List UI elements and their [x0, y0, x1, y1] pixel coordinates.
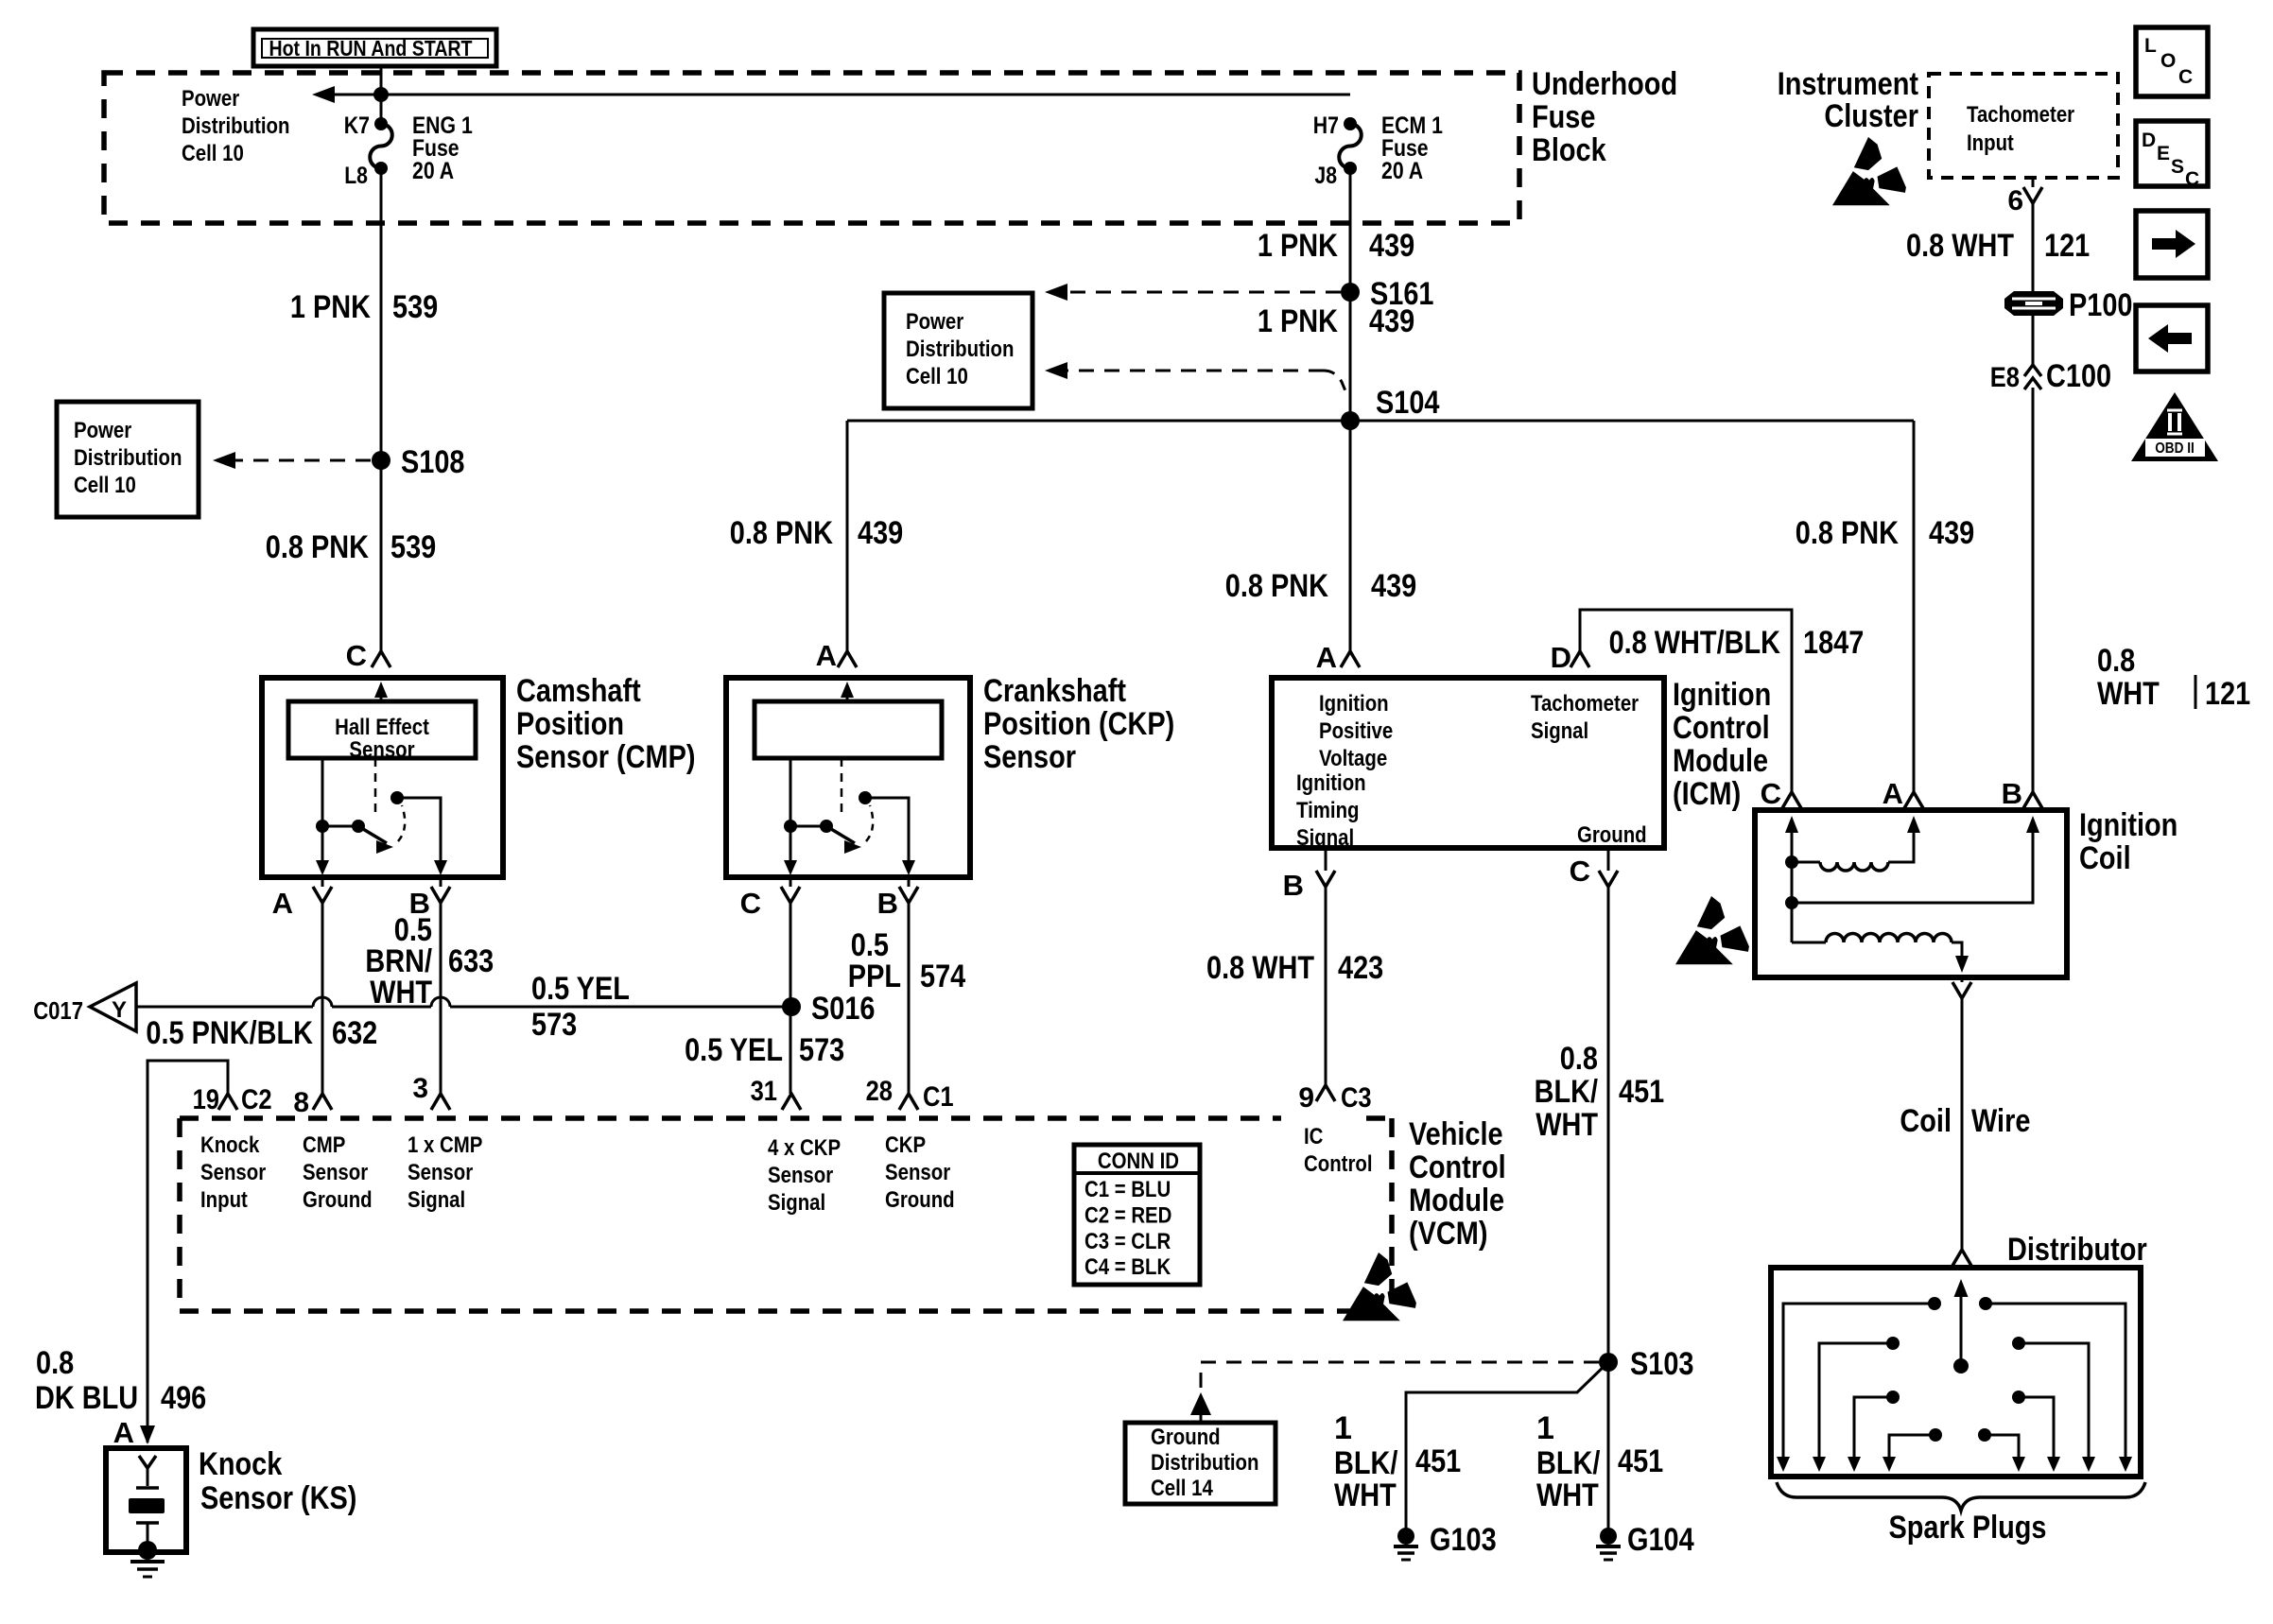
wire: 0.8 PNK 439 down to ignition coil pin A: [1913, 421, 1916, 792]
svg-text:0.8 WHT: 0.8 WHT: [1906, 228, 2014, 264]
svg-text:1 PNK: 1 PNK: [290, 289, 371, 325]
dashed arrow S108 to power distribution: [234, 459, 371, 462]
connector at ICM pin D: [1570, 651, 1589, 667]
svg-text:Control: Control: [1673, 710, 1770, 746]
svg-text:IC: IC: [1304, 1124, 1323, 1149]
svg-text:Signal: Signal: [768, 1190, 825, 1216]
svg-text:Module: Module: [1673, 743, 1768, 779]
svg-text:451: 451: [1415, 1443, 1461, 1479]
wire: 0.5 YEL 573 bus: [136, 1006, 313, 1009]
connector at tach pin 6: [2023, 187, 2042, 203]
svg-text:Module: Module: [1409, 1183, 1504, 1218]
svg-text:J8: J8: [1314, 163, 1337, 189]
svg-text:1847: 1847: [1803, 625, 1864, 661]
svg-text:Underhood: Underhood: [1532, 66, 1677, 102]
svg-text:3: 3: [412, 1073, 428, 1104]
svg-text:Signal: Signal: [408, 1187, 465, 1213]
CKP switch mechanism: [784, 820, 797, 833]
splice S103: [1599, 1353, 1618, 1372]
svg-text:C100: C100: [2046, 358, 2111, 394]
svg-text:(ICM): (ICM): [1673, 776, 1741, 812]
svg-text:A: A: [113, 1416, 134, 1449]
svg-text:Hall Effect: Hall Effect: [335, 715, 429, 740]
svg-text:S103: S103: [1630, 1346, 1694, 1382]
svg-text:121: 121: [2044, 228, 2090, 264]
svg-text:Input: Input: [200, 1187, 248, 1213]
svg-text:S104: S104: [1376, 385, 1440, 421]
svg-text:Input: Input: [1967, 130, 2014, 156]
connector at CKP pin A: [838, 651, 857, 667]
svg-text:Sensor (KS): Sensor (KS): [200, 1480, 356, 1516]
svg-text:1 PNK: 1 PNK: [1258, 228, 1338, 264]
svg-text:A: A: [1883, 777, 1903, 810]
svg-text:4 x CKP: 4 x CKP: [768, 1135, 841, 1161]
legend box DESC: [2136, 121, 2208, 186]
svg-text:Y: Y: [112, 997, 127, 1023]
connector C100 (E8): [2024, 365, 2041, 376]
distributor box: [1771, 1268, 2141, 1477]
svg-text:Distribution: Distribution: [182, 113, 290, 139]
distributor cap contact 8: [1979, 1297, 1992, 1310]
connector VCM pin 8: [313, 1094, 332, 1110]
dashed line S103 to ground distribution: [1201, 1362, 1599, 1391]
junction node on feed: [373, 87, 389, 102]
wire: S104 horizontal distribution: [847, 420, 1914, 423]
svg-text:WHT: WHT: [370, 975, 432, 1011]
svg-text:Sensor: Sensor: [885, 1160, 950, 1185]
svg-text:S: S: [2171, 156, 2184, 178]
OBD II triangle symbol: [2131, 392, 2218, 461]
svg-text:C017: C017: [33, 996, 83, 1025]
svg-text:574: 574: [920, 959, 965, 994]
svg-text:B: B: [877, 887, 898, 920]
svg-text:C: C: [2185, 168, 2199, 190]
svg-text:WHT: WHT: [1334, 1477, 1397, 1513]
svg-text:423: 423: [1338, 950, 1383, 986]
wire: PPL 574 CKP B to VCM pin 28: [908, 903, 911, 1094]
svg-text:P100: P100: [2069, 287, 2133, 323]
svg-text:Signal: Signal: [1296, 825, 1354, 851]
connector at CMP pin B: [431, 887, 450, 903]
svg-text:Crankshaft: Crankshaft: [983, 673, 1126, 709]
splice S161: [1341, 283, 1360, 302]
connector VCM pin 31: [782, 1094, 801, 1110]
coil pin C internal lead: [1791, 822, 1794, 942]
wire: YEL 573 CKP C to S016 to VCM pin 31: [789, 903, 792, 1094]
svg-text:C: C: [346, 639, 367, 672]
CMP right wire to pin B: [397, 798, 441, 870]
connector at CKP pin B: [899, 887, 918, 903]
svg-text:DK BLU: DK BLU: [35, 1380, 138, 1416]
svg-text:Position (CKP): Position (CKP): [983, 706, 1174, 742]
distributor cap contact 6: [2012, 1391, 2025, 1404]
splice S104: [1341, 411, 1360, 430]
svg-text:0.8: 0.8: [2097, 643, 2135, 679]
knock sensor element: [147, 1468, 149, 1486]
svg-text:BLK/: BLK/: [1334, 1445, 1398, 1481]
svg-text:Coil: Coil: [1900, 1103, 1952, 1139]
svg-text:PPL: PPL: [848, 959, 901, 994]
ground G103: [1397, 1528, 1414, 1545]
svg-text:539: 539: [390, 529, 436, 565]
svg-text:Power: Power: [74, 418, 131, 443]
svg-text:0.8 WHT: 0.8 WHT: [1206, 950, 1314, 986]
svg-text:K7: K7: [344, 112, 370, 139]
svg-text:20 A: 20 A: [1381, 158, 1423, 184]
svg-text:0.8 PNK: 0.8 PNK: [1796, 515, 1900, 551]
svg-text:Cell 14: Cell 14: [1151, 1476, 1213, 1501]
svg-text:S108: S108: [401, 444, 465, 480]
camshaft position sensor box: [262, 678, 503, 877]
svg-text:Ignition: Ignition: [2079, 807, 2178, 843]
svg-text:Tachometer: Tachometer: [1531, 691, 1639, 717]
svg-text:0.8: 0.8: [1560, 1041, 1598, 1077]
svg-text:0.8 WHT/BLK: 0.8 WHT/BLK: [1609, 625, 1781, 661]
svg-text:Wire: Wire: [1971, 1103, 2030, 1139]
svg-text:0.8: 0.8: [36, 1345, 74, 1381]
svg-text:Power: Power: [906, 309, 963, 335]
svg-text:Camshaft: Camshaft: [516, 673, 641, 709]
svg-text:C: C: [1761, 777, 1781, 810]
svg-text:31: 31: [751, 1076, 777, 1107]
dashed arrow S104 to power distribution: [1067, 370, 1324, 372]
svg-text:1 PNK: 1 PNK: [1258, 303, 1338, 339]
svg-text:CKP: CKP: [885, 1132, 926, 1158]
distributor cap contact 1: [1928, 1297, 1941, 1310]
svg-text:C3 = CLR: C3 = CLR: [1084, 1229, 1171, 1254]
svg-text:C1 = BLU: C1 = BLU: [1084, 1177, 1171, 1202]
svg-text:A: A: [1316, 641, 1337, 674]
svg-text:A: A: [272, 887, 293, 920]
connector below coil: [1952, 982, 1971, 998]
svg-text:Timing: Timing: [1296, 798, 1360, 823]
svg-text:1: 1: [1334, 1410, 1352, 1446]
wire: 0.8 BLK/WHT 451 ICM C to S103: [1607, 887, 1610, 1362]
ESD symbol (VCM): [1343, 1253, 1416, 1321]
svg-text:0.5 YEL: 0.5 YEL: [685, 1032, 783, 1068]
svg-text:Fuse: Fuse: [1532, 99, 1595, 135]
svg-text:D: D: [1551, 641, 1571, 674]
svg-text:S016: S016: [811, 991, 876, 1027]
svg-text:OBD II: OBD II: [2155, 441, 2195, 457]
svg-text:L: L: [2144, 35, 2157, 57]
svg-text:1 x CMP: 1 x CMP: [408, 1132, 482, 1158]
svg-text:C1: C1: [923, 1081, 954, 1113]
svg-text:E8: E8: [1990, 362, 2020, 393]
connector at ICM pin B: [1316, 871, 1335, 887]
wire: 0.8 WHT 121 tach to coil B: [2032, 203, 2035, 291]
svg-text:Tachometer: Tachometer: [1967, 102, 2074, 128]
svg-text:H7: H7: [1313, 112, 1339, 139]
svg-text:Hot In RUN And START: Hot In RUN And START: [269, 36, 473, 60]
svg-text:Power: Power: [182, 86, 239, 112]
ground distribution cell 14 box: [1125, 1423, 1275, 1504]
distributor cap contact 4: [1929, 1428, 1942, 1442]
svg-text:Ignition: Ignition: [1319, 691, 1389, 717]
svg-text:Sensor: Sensor: [983, 739, 1076, 775]
connector at coil pin C: [1782, 792, 1801, 808]
svg-text:Ground: Ground: [885, 1187, 955, 1213]
svg-text:Sensor: Sensor: [768, 1163, 833, 1188]
svg-text:G104: G104: [1627, 1522, 1694, 1558]
svg-text:439: 439: [858, 515, 903, 551]
power distribution cell 10 box (left): [57, 402, 199, 517]
ignition control module box: [1272, 678, 1664, 848]
svg-text:Sensor: Sensor: [303, 1160, 368, 1185]
svg-text:8: 8: [293, 1087, 309, 1118]
connector VCM pin 9: [1316, 1085, 1335, 1101]
svg-text:O: O: [2160, 50, 2176, 72]
legend box left-arrow: [2136, 305, 2208, 371]
splice S108: [372, 451, 390, 470]
svg-text:0.8 PNK: 0.8 PNK: [730, 515, 834, 551]
CKP left wire to pin C: [789, 758, 792, 870]
legend box LOC: [2136, 27, 2208, 96]
svg-text:451: 451: [1619, 1074, 1664, 1110]
connector at distributor input: [1952, 1250, 1971, 1266]
svg-text:Position: Position: [516, 706, 624, 742]
wire: hot feed into fuse block: [380, 66, 383, 124]
svg-text:G103: G103: [1430, 1522, 1497, 1558]
pass-through grommet P100: [2004, 291, 2063, 316]
svg-text:0.8 PNK: 0.8 PNK: [266, 529, 370, 565]
svg-text:Ignition: Ignition: [1673, 677, 1771, 713]
wire: 0.8 WHT 423 ICM B to VCM pin 9: [1325, 887, 1327, 1085]
svg-text:Ignition: Ignition: [1296, 770, 1366, 796]
knock sensor box: [106, 1448, 186, 1552]
CKP right wire to pin B: [865, 798, 909, 870]
wire: PNK 439 fuse to S161 to S104 to ICM pin A: [1349, 168, 1352, 651]
knock sensor ground: [138, 1541, 157, 1560]
distributor cap contact 5: [1978, 1428, 1991, 1442]
svg-text:439: 439: [1369, 303, 1414, 339]
svg-text:451: 451: [1618, 1443, 1663, 1479]
svg-text:Distribution: Distribution: [74, 445, 182, 471]
wire: DK BLU 496 knock sensor to VCM pin 19: [147, 1061, 228, 1443]
svg-text:632: 632: [332, 1015, 377, 1051]
wire: BRN/WHT 633 CMP B to VCM pin 3: [440, 903, 442, 1094]
connector at ICM pin C: [1599, 871, 1618, 887]
svg-text:19: 19: [193, 1084, 219, 1115]
arrow up inside CMP box: [380, 687, 383, 701]
underhood fuse block dashed box: [104, 73, 1519, 223]
svg-text:BLK/: BLK/: [1535, 1074, 1599, 1110]
svg-text:CMP: CMP: [303, 1132, 345, 1158]
svg-text:Distributor: Distributor: [2007, 1232, 2147, 1268]
coil secondary winding: [1792, 942, 1826, 944]
svg-text:WHT: WHT: [2097, 676, 2160, 712]
CMP switch mechanism: [316, 820, 329, 833]
svg-text:496: 496: [161, 1380, 206, 1416]
connector at CMP pin C: [372, 651, 390, 667]
svg-text:C: C: [740, 887, 761, 920]
svg-text:C4 = BLK: C4 = BLK: [1084, 1254, 1171, 1280]
vehicle control module dashed outline: [180, 1115, 1281, 1121]
svg-text:Knock: Knock: [200, 1132, 260, 1158]
svg-text:L8: L8: [344, 163, 368, 189]
svg-text:Positive: Positive: [1319, 718, 1393, 744]
svg-text:Sensor: Sensor: [408, 1160, 473, 1185]
svg-text:BLK/: BLK/: [1536, 1445, 1601, 1481]
svg-text:Sensor: Sensor: [200, 1160, 266, 1185]
wire: fuse block internal bus: [333, 94, 1350, 96]
svg-text:Cell 10: Cell 10: [74, 473, 136, 498]
svg-text:Spark Plugs: Spark Plugs: [1889, 1510, 2047, 1546]
svg-text:0.5 YEL: 0.5 YEL: [531, 971, 630, 1007]
svg-text:121: 121: [2205, 676, 2250, 712]
svg-text:633: 633: [448, 943, 494, 979]
splice S016: [782, 997, 801, 1016]
svg-text:E: E: [2157, 143, 2170, 164]
svg-text:Voltage: Voltage: [1319, 746, 1387, 771]
coil pin B internal lead: [1785, 896, 1798, 909]
fuse ECM 1 (H7-J8): [1344, 117, 1357, 130]
svg-text:0.5 PNK/BLK: 0.5 PNK/BLK: [146, 1015, 313, 1051]
svg-text:539: 539: [392, 289, 438, 325]
svg-text:1: 1: [1536, 1410, 1554, 1446]
svg-text:Knock: Knock: [199, 1446, 282, 1482]
svg-text:B: B: [1283, 869, 1304, 902]
svg-text:439: 439: [1369, 228, 1414, 264]
wire: PNK 539 down to S108 and CMP: [380, 168, 383, 651]
arrowhead to power distribution: [312, 86, 335, 103]
svg-text:439: 439: [1371, 568, 1416, 604]
coil primary winding: [1785, 855, 1798, 869]
svg-text:Block: Block: [1532, 132, 1606, 168]
connector at coil pin A: [1904, 792, 1923, 808]
svg-text:C: C: [2178, 66, 2193, 88]
svg-text:9: 9: [1298, 1082, 1314, 1114]
connector VCM pin 19: [218, 1094, 237, 1110]
tachometer input dashed box: [1929, 74, 2118, 178]
dashed stem inside CKP: [841, 758, 843, 815]
connector at CKP pin C: [781, 887, 800, 903]
svg-text:WHT: WHT: [1536, 1477, 1599, 1513]
svg-text:Ground: Ground: [1577, 822, 1647, 848]
connector at coil pin B: [2023, 792, 2042, 808]
distributor cap contact 7: [2012, 1337, 2025, 1350]
svg-text:D: D: [2142, 130, 2156, 151]
svg-text:Cluster: Cluster: [1824, 98, 1918, 134]
wire: PNK/BLK 632 CMP A to VCM pin 8: [321, 903, 324, 1094]
svg-text:Control: Control: [1304, 1151, 1373, 1177]
spark plugs brace: [1777, 1482, 2145, 1511]
svg-text:0.8 PNK: 0.8 PNK: [1225, 568, 1329, 604]
legend box right-arrow: [2136, 211, 2208, 278]
svg-text:Cell 10: Cell 10: [182, 141, 244, 166]
dashed stem inside CMP: [374, 758, 377, 815]
svg-text:B: B: [2002, 777, 2022, 810]
svg-text:C: C: [1570, 855, 1590, 888]
connector VCM pin 3: [431, 1094, 450, 1110]
svg-text:CONN ID: CONN ID: [1098, 1149, 1179, 1174]
svg-text:Distribution: Distribution: [906, 337, 1015, 362]
svg-text:Sensor: Sensor: [349, 737, 414, 763]
svg-text:Signal: Signal: [1531, 718, 1588, 744]
svg-text:573: 573: [531, 1007, 577, 1043]
svg-text:Instrument: Instrument: [1778, 66, 1918, 102]
ESD symbol (instrument cluster): [1832, 137, 1906, 205]
svg-text:Sensor (CMP): Sensor (CMP): [516, 739, 696, 775]
triangle to ground distribution: [1190, 1392, 1211, 1415]
distributor rotor arrow: [1953, 1358, 1969, 1373]
svg-text:Cell 10: Cell 10: [906, 364, 968, 389]
svg-text:28: 28: [866, 1076, 893, 1107]
CMP left wire to pin A: [321, 758, 324, 870]
hall effect sensor inner box: [288, 701, 476, 758]
svg-text:Ground: Ground: [303, 1187, 373, 1213]
svg-text:439: 439: [1929, 515, 1974, 551]
CKP inner box: [755, 701, 942, 758]
power distribution cell 10 box (middle): [884, 293, 1032, 408]
connector at CMP pin A: [313, 887, 332, 903]
fuse ENG 1 (K7-L8): [374, 117, 388, 130]
ground G104: [1600, 1528, 1617, 1545]
CONN ID table: [1074, 1145, 1200, 1285]
wire: coil wire to distributor: [1961, 998, 1964, 1250]
crankshaft position sensor box: [726, 678, 970, 877]
svg-text:C2 = RED: C2 = RED: [1084, 1202, 1171, 1228]
hot in run and start label box: [253, 29, 496, 66]
ignition coil box: [1755, 810, 2067, 977]
connector at ICM pin A: [1341, 651, 1360, 667]
svg-text:Vehicle: Vehicle: [1409, 1116, 1503, 1152]
svg-text:Ground: Ground: [1151, 1425, 1221, 1450]
connector inside knock sensor: [139, 1456, 156, 1468]
svg-text:A: A: [816, 639, 837, 672]
connector VCM pin 28: [899, 1094, 918, 1110]
dashed arrow S161 to power distribution: [1067, 291, 1341, 294]
svg-text:Distribution: Distribution: [1151, 1450, 1259, 1476]
svg-text:Coil: Coil: [2079, 840, 2131, 876]
wire: 0.8 PNK 439 down to CKP pin A: [846, 421, 849, 651]
wire: S103 branch to G103: [1406, 1362, 1608, 1529]
wire: S103 to G104: [1607, 1362, 1610, 1529]
arrow up inside CKP box: [846, 687, 849, 701]
wire: 0.8 WHT/BLK 1847 ICM D to coil C: [1580, 610, 1792, 792]
svg-text:C2: C2: [241, 1084, 272, 1115]
distributor cap contact 3: [1886, 1391, 1900, 1404]
svg-text:20 A: 20 A: [412, 158, 454, 184]
distributor cap contact 2: [1886, 1337, 1900, 1350]
svg-text:WHT: WHT: [1536, 1107, 1598, 1143]
connector C017 triangle: [90, 983, 136, 1031]
ESD symbol (ICM): [1675, 896, 1749, 964]
svg-text:573: 573: [799, 1032, 844, 1068]
svg-text:6: 6: [2007, 185, 2023, 216]
svg-text:C3: C3: [1341, 1082, 1372, 1114]
svg-text:(VCM): (VCM): [1409, 1216, 1488, 1252]
svg-text:Control: Control: [1409, 1149, 1506, 1185]
